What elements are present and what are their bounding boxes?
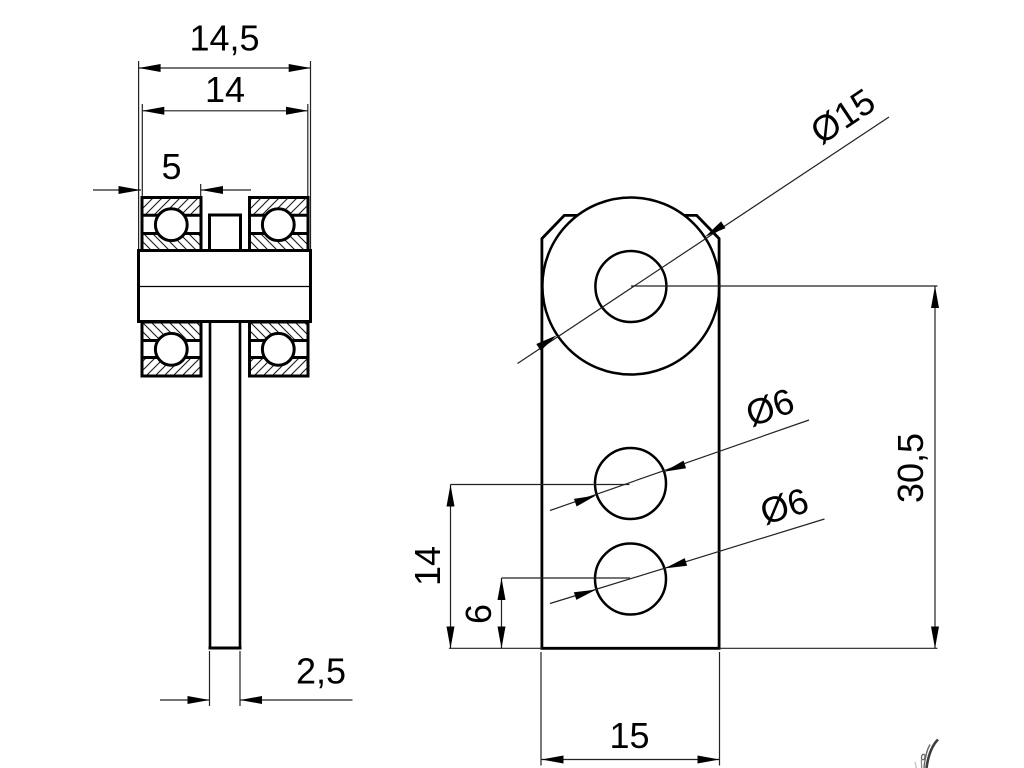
- wire: leader Ø15: [518, 117, 890, 364]
- svg-text:30,5: 30,5: [890, 433, 931, 503]
- wire: dimension line 14: [142, 110, 307, 112]
- wire: bottom extension left: [449, 647, 542, 649]
- svg-text:15: 15: [609, 715, 649, 756]
- svg-text:5: 5: [161, 146, 181, 187]
- svg-text:14: 14: [407, 546, 448, 586]
- svg-text:2,5: 2,5: [296, 651, 346, 692]
- wire: dimension line 2,5: [160, 699, 210, 701]
- hole lower (Ø6): [595, 544, 666, 615]
- bearing top-right: [250, 198, 309, 251]
- wire: centerline to 30,5: [631, 285, 938, 287]
- wire: bottom extension right: [719, 647, 937, 649]
- wire: extension lines 15: [540, 652, 542, 766]
- decorative corner curl: [915, 740, 938, 768]
- flange disc: [139, 251, 311, 322]
- shaft top block: [210, 215, 241, 251]
- wire: extension line 14 right: [307, 104, 309, 196]
- svg-text:14: 14: [205, 69, 245, 110]
- boss circle (Ø15): [542, 198, 719, 375]
- wire: leader Ø6 upper: [550, 420, 809, 511]
- shaft: [209, 322, 242, 649]
- wire: dimension 30,5: [934, 286, 936, 649]
- wire: centerline upper hole: [451, 484, 630, 486]
- bearing top-left: [142, 198, 201, 251]
- wire: centerline lower hole: [502, 577, 631, 579]
- wire: dimension 14 vertical: [450, 485, 452, 649]
- wire: extension line 14,5 left: [138, 61, 140, 250]
- plate outline: [542, 215, 719, 648]
- wire: dimension line 15: [542, 759, 720, 761]
- wire: extension line 5 right: [200, 184, 202, 196]
- bore circle: [595, 251, 666, 322]
- wire: extension line 14 left: [141, 104, 143, 196]
- bearing bottom-left: [142, 322, 201, 376]
- wire: extension line 14,5 right: [310, 61, 312, 250]
- bearing bottom-right: [250, 322, 309, 376]
- wire: dimension line 14,5: [139, 67, 311, 69]
- svg-text:6: 6: [458, 604, 499, 624]
- wire: dimension 6 vertical: [501, 578, 503, 649]
- svg-text:14,5: 14,5: [189, 18, 259, 59]
- wire: leader Ø6 lower: [550, 519, 825, 604]
- wire: extension lines 2,5: [209, 651, 211, 706]
- wire: dimension line 5: [93, 189, 141, 191]
- hole upper (Ø6): [595, 448, 666, 519]
